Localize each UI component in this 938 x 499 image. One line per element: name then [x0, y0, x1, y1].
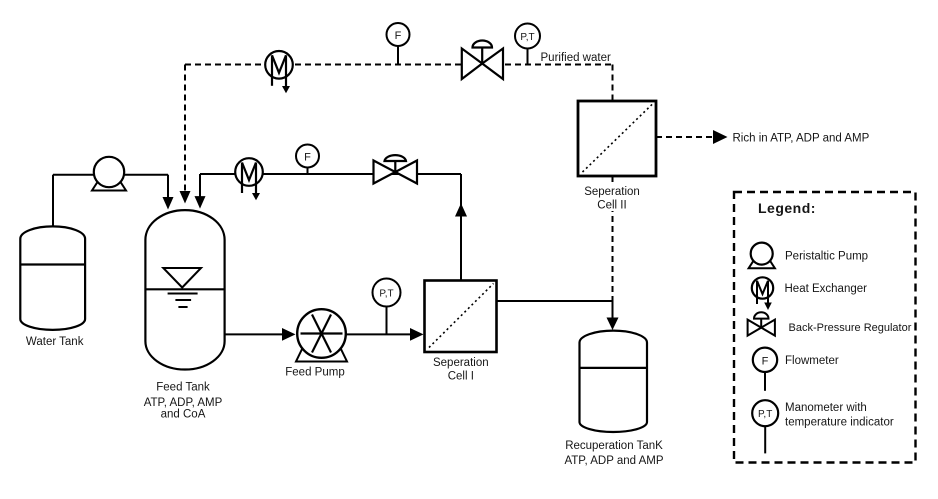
label: Recuperation TanK [565, 440, 663, 452]
wire: down into feed tank from pump [167, 175, 169, 198]
label: Rich in ATP, ADP and AMP [733, 133, 870, 145]
svg-text:Manometer with: Manometer with [785, 402, 867, 414]
flowmeter (row2) [296, 145, 319, 175]
svg-text:Purified water: Purified water [541, 52, 611, 64]
svg-text:P,T: P,T [520, 32, 534, 43]
svg-text:F: F [304, 152, 311, 164]
svg-text:Seperation: Seperation [584, 186, 640, 198]
wire: solid recycle line row2 horizontal [200, 173, 461, 175]
wire: feed tank to feed pump [225, 333, 284, 335]
label: temperature indicator [785, 417, 894, 429]
label: Manometer with [785, 402, 867, 414]
label: ATP, ADP, AMP [144, 397, 223, 409]
label: and CoA [161, 409, 206, 421]
svg-text:Cell II: Cell II [597, 200, 626, 212]
label: Cell II [597, 200, 626, 212]
label: Cell I [448, 371, 474, 383]
heat exchanger (row2) [235, 158, 263, 200]
arrow: into feed tank (from water pump) [163, 197, 174, 210]
wire: dashed from cell II right [656, 136, 714, 138]
wire: cell I right to junction [497, 300, 613, 302]
wire: dashed purified-water line, right vertical to Seperation Cell II top [612, 65, 614, 102]
manometer P,T (feed line) [373, 279, 401, 335]
label: Peristaltic Pump [785, 251, 868, 263]
water tank [20, 226, 85, 329]
label: Flowmeter [785, 355, 839, 367]
legend box [734, 192, 916, 463]
svg-text:Cell I: Cell I [448, 371, 474, 383]
legend peristaltic pump [749, 243, 775, 269]
legend manometer [752, 400, 778, 453]
peristaltic pump (main) [92, 157, 126, 191]
feed tank [145, 210, 224, 369]
level symbol: inverted triangle in feed tank [163, 268, 201, 288]
svg-text:Flowmeter: Flowmeter [785, 355, 839, 367]
svg-text:ATP, ADP and AMP: ATP, ADP and AMP [564, 455, 663, 467]
arrow: into feed tank (dashed purified water) [180, 191, 191, 204]
heat exchanger (top row) [265, 51, 293, 93]
label: ATP, ADP and AMP [564, 455, 663, 467]
back-pressure regulator (row2) [374, 155, 418, 183]
svg-text:Back-Pressure Regulator: Back-Pressure Regulator [789, 322, 912, 334]
svg-text:F: F [762, 355, 769, 367]
wire: junction down to recuperation tank [612, 301, 614, 319]
arrow: into recuperation tank [607, 318, 619, 331]
label: Back-Pressure Regulator [789, 322, 912, 334]
flowmeter (top row) [387, 23, 410, 65]
svg-text:Water Tank: Water Tank [26, 336, 84, 348]
svg-text:and CoA: and CoA [161, 409, 206, 421]
svg-text:Feed Tank: Feed Tank [156, 382, 210, 394]
label: Water Tank [26, 336, 84, 348]
label: Purified water [541, 52, 611, 64]
wire: dashed from cell II bottom to junction [612, 176, 614, 301]
svg-text:Heat Exchanger: Heat Exchanger [785, 283, 868, 295]
level symbol: liquid surface lines [168, 294, 198, 308]
svg-text:Rich in ATP, ADP and AMP: Rich in ATP, ADP and AMP [733, 133, 870, 145]
label: Seperation (cell II) [581, 184, 643, 211]
svg-text:F: F [395, 30, 402, 42]
svg-text:temperature indicator: temperature indicator [785, 417, 894, 429]
legend heat exchanger [752, 277, 773, 310]
svg-text:P,T: P,T [758, 409, 772, 420]
arrow: into feed tank (recycle row2) [195, 196, 206, 209]
svg-text:ATP, ADP, AMP: ATP, ADP, AMP [144, 397, 223, 409]
wire: dashed purified-water line, top horizontal [185, 64, 613, 66]
legend back-pressure regulator [748, 312, 775, 335]
wire: pump line horizontal [53, 174, 168, 176]
wire: vertical from Seperation Cell I top up to row2 [460, 174, 462, 281]
wire: feed pump to cell I [346, 333, 411, 335]
manometer P,T (top row) [515, 24, 540, 65]
legend flowmeter [753, 348, 777, 391]
svg-text:Feed Pump: Feed Pump [285, 367, 344, 379]
label: Seperation (cell I) [433, 357, 489, 369]
label: Feed Tank [156, 382, 210, 394]
arrow: into Seperation Cell I [410, 328, 424, 341]
feed pump [296, 309, 347, 361]
svg-text:Recuperation TanK: Recuperation TanK [565, 440, 663, 452]
label: Legend: [758, 200, 816, 216]
wire: dashed purified-water line, left vertical into feed tank [184, 65, 186, 193]
Seperation Cell II [578, 101, 656, 176]
svg-text:P,T: P,T [379, 289, 393, 300]
recuperation tank [580, 331, 648, 432]
arrow: rich stream [713, 130, 728, 144]
svg-text:Peristaltic Pump: Peristaltic Pump [785, 251, 868, 263]
arrow: upward on cell I riser [455, 203, 467, 216]
Seperation Cell I [425, 281, 497, 353]
wire: water tank to pump vertical [52, 175, 54, 227]
svg-text:Seperation: Seperation [433, 357, 489, 369]
label: Heat Exchanger [785, 283, 868, 295]
arrow: into feed pump [282, 328, 296, 341]
wire: row2 left vertical into feed tank [199, 174, 201, 198]
back-pressure regulator (top row) [462, 41, 503, 79]
svg-text:Legend:: Legend: [758, 200, 816, 216]
label: Feed Pump [285, 367, 344, 379]
